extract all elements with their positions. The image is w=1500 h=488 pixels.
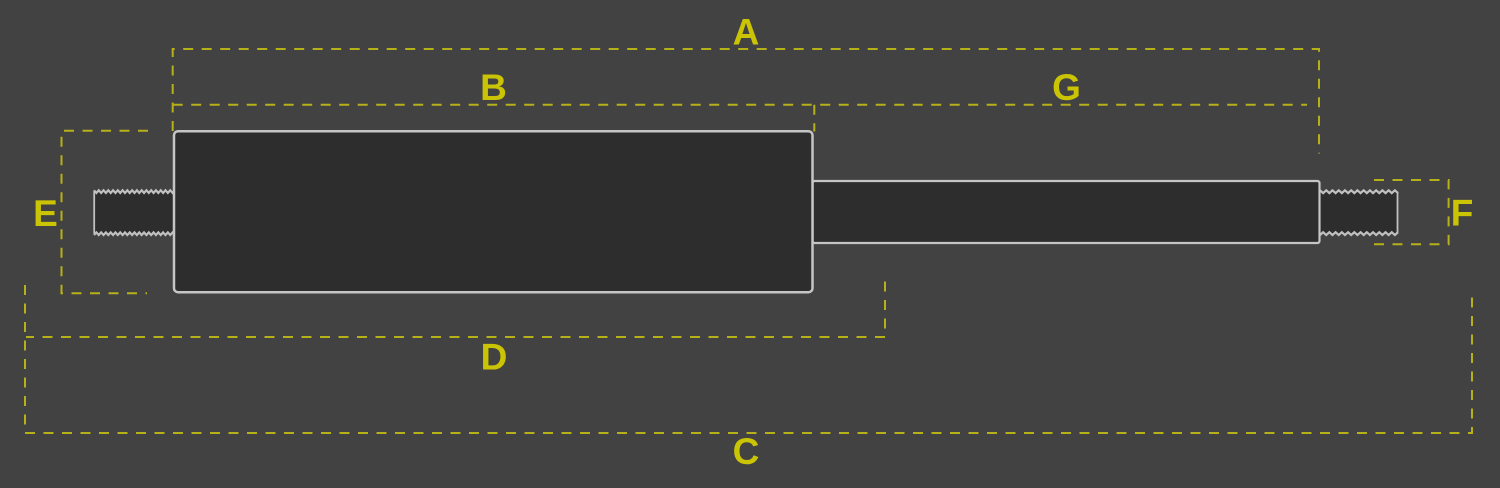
dimension bracket F [1368, 180, 1449, 244]
dimension bracket A [173, 49, 1319, 154]
left thread end face [93, 191, 95, 234]
svg-text:D: D [481, 337, 508, 378]
right thread top zigzag [1320, 190, 1398, 193]
left threaded stud fill [94, 190, 175, 235]
right thread end face [1397, 193, 1399, 233]
svg-text:C: C [733, 431, 760, 472]
left thread bottom zigzag [94, 232, 175, 235]
svg-text:A: A [733, 12, 760, 53]
piston rod [813, 181, 1320, 243]
dimension line B/G [173, 104, 1307, 106]
svg-text:E: E [33, 193, 58, 234]
dimension bracket C [25, 285, 1472, 433]
svg-text:F: F [1451, 193, 1474, 234]
dimension bracket D [26, 282, 885, 338]
B/G separator tick [813, 105, 815, 132]
right threaded stud fill [1320, 190, 1398, 235]
svg-text:B: B [480, 67, 507, 108]
left thread top zigzag [94, 190, 175, 193]
dimension bracket E [62, 131, 149, 293]
cylinder body [174, 131, 813, 292]
svg-text:G: G [1052, 67, 1081, 108]
right thread bottom zigzag [1320, 232, 1398, 235]
